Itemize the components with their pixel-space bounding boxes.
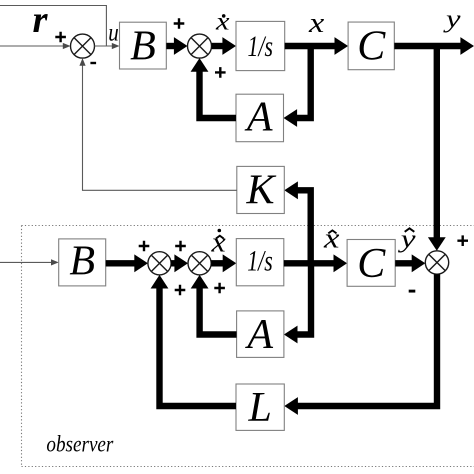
summing junction S3: [148, 252, 171, 275]
wire y down to S5: [428, 48, 446, 251]
plus sign S4 bottom-right: [214, 283, 225, 294]
wire B1 to S2: [166, 37, 187, 55]
block A2: [237, 311, 284, 358]
svg-text:L: L: [247, 385, 271, 431]
svg-text:C: C: [357, 241, 386, 287]
block B2: [59, 238, 106, 286]
block C2: [347, 240, 395, 287]
svg-text:K: K: [246, 168, 277, 214]
svg-text:x: x: [308, 8, 325, 39]
wire S1 to B1: [95, 43, 120, 49]
wire C1 to output y: [394, 37, 474, 55]
plus sign S2 top-left: [174, 18, 185, 29]
wire K to S1: [79, 58, 236, 190]
wire A1 to S2: [191, 58, 236, 118]
svg-text:observer: observer: [46, 432, 114, 457]
plus sign S4 top-left: [175, 241, 186, 252]
plus sign S2 bottom-right: [215, 67, 226, 78]
svg-text:1/s: 1/s: [248, 30, 274, 63]
block B1: [120, 22, 167, 69]
plus sign S5 top-right: [457, 235, 468, 246]
plus sign S1 left: [55, 32, 66, 43]
block L: [236, 384, 284, 431]
wire x to A1: [284, 46, 311, 127]
wire integrator2 to C2, node xhat branch: [284, 254, 347, 272]
label xdot: [215, 8, 230, 35]
summing junction S5: [425, 251, 448, 274]
svg-text:u: u: [108, 19, 119, 46]
observer dotted box: [22, 226, 474, 467]
svg-text:1/s: 1/s: [247, 244, 273, 277]
minus sign S5 bottom-left: [409, 290, 416, 293]
wire A2 to S4: [191, 275, 237, 335]
wire u feedback top: [0, 6, 106, 47]
plus sign S3 bottom-right: [175, 285, 186, 296]
wire integrator to C1, node x branch: [285, 37, 348, 55]
wire S4 to integrator2: [211, 254, 236, 272]
svg-text:r: r: [33, 0, 49, 41]
svg-text:x: x: [323, 223, 340, 254]
wire S3 to S4: [171, 254, 188, 272]
svg-text:B: B: [69, 238, 95, 284]
block A1: [236, 94, 284, 142]
wire xhat to K: [284, 181, 310, 263]
summing junction S2: [188, 34, 212, 58]
svg-text:x: x: [215, 8, 230, 35]
svg-text:C: C: [357, 24, 386, 70]
label xhatdot: [210, 228, 226, 259]
wire L to S3: [151, 275, 236, 406]
block K: [237, 166, 284, 213]
summing junction S4: [188, 252, 211, 275]
node yhat label: [397, 226, 417, 253]
wire r input: [0, 43, 71, 49]
node xhat label: [323, 223, 340, 254]
plus sign S3 top-left: [139, 241, 150, 252]
wire S2 to integrator: [212, 37, 237, 55]
wire observer input: [0, 259, 59, 265]
block integrator2 1/s: [236, 239, 283, 286]
wire C2 to S5: [395, 254, 425, 272]
svg-text:B: B: [130, 23, 156, 69]
block C1: [348, 22, 394, 70]
wire B2 to S3: [106, 254, 148, 272]
svg-text:A: A: [244, 95, 273, 141]
svg-text:y: y: [442, 6, 462, 33]
minus sign S1 bottom: [90, 62, 96, 64]
svg-text:x: x: [210, 228, 226, 259]
wire xhat down to A2: [284, 263, 311, 343]
summing junction S1: [71, 34, 95, 58]
svg-text:A: A: [244, 312, 273, 358]
block integrator 1/s: [236, 21, 285, 70]
wire S5 to L: [284, 274, 437, 415]
